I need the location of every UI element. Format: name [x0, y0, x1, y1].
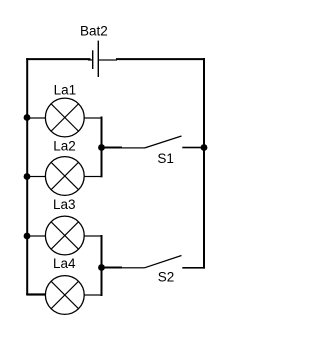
svg-text:La3: La3 — [53, 197, 76, 212]
switch S1 lead left — [121, 147, 145, 148]
wire La1 left lead — [27, 117, 46, 118]
switch S2 lever (open) — [145, 256, 182, 268]
wire left bus — [26, 58, 28, 295]
svg-text:S2: S2 — [158, 269, 175, 284]
lamp La2 — [45, 157, 84, 196]
node junction right bus at S1 — [201, 144, 208, 151]
wire junction to S1 — [102, 147, 123, 149]
svg-text:Bat2: Bat2 — [80, 24, 108, 39]
lamp La3 — [45, 216, 84, 255]
node junction left bus at La1 — [24, 114, 31, 121]
switch S2 lead left — [121, 267, 145, 268]
battery Bat2 short plate (negative) — [92, 50, 93, 69]
wire top-left (battery negative to left bus) — [26, 58, 90, 60]
wire top-right (battery positive to right bus) — [116, 58, 205, 60]
wire right connector La1-La2 — [101, 117, 103, 178]
wire bottom-left (left bus to La4) — [26, 293, 45, 295]
switch S2 lead right — [182, 267, 205, 269]
wire La3 right lead — [84, 235, 103, 236]
lamp La1 — [45, 98, 84, 137]
battery Bat2 lead left — [88, 59, 93, 60]
wire La2 right lead — [84, 176, 103, 177]
node junction left bus at La3 — [24, 233, 31, 240]
wire right bus — [203, 58, 205, 269]
node junction left bus at La2 — [24, 173, 31, 180]
wire La3 left lead — [27, 235, 46, 236]
battery Bat2 lead right — [98, 59, 117, 60]
svg-text:S1: S1 — [157, 151, 174, 166]
wire La2 left lead — [27, 176, 46, 177]
switch S1 lever (open) — [145, 136, 182, 148]
wire La4 left lead — [27, 294, 46, 295]
wire right connector La3-La4 — [101, 235, 103, 296]
wire La1 right lead — [84, 117, 103, 118]
svg-text:La1: La1 — [54, 82, 77, 97]
svg-text:La2: La2 — [53, 139, 76, 154]
node junction parallel La3/La4 to S2 — [98, 264, 105, 271]
battery Bat2 long plate (positive) — [98, 41, 99, 77]
svg-text:La4: La4 — [53, 256, 76, 271]
wire junction to S2 — [102, 267, 123, 269]
node junction parallel La1/La2 to S1 — [98, 144, 105, 151]
switch S1 lead right — [182, 147, 204, 149]
lamp La4 — [45, 276, 84, 315]
wire La4 right lead — [84, 294, 103, 295]
